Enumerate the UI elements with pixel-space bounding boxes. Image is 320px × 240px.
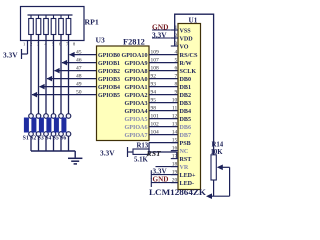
wire net 95 (U3 pin 95 to U1 pin 10) xyxy=(149,102,178,104)
svg-text:9: 9 xyxy=(175,89,178,95)
svg-text:S5: S5 xyxy=(53,136,59,142)
svg-text:107: 107 xyxy=(151,57,160,63)
wire net 107 (U3 pin 107 to U1 pin 5) xyxy=(149,62,178,64)
wire key column 2 (RP1 pin to switch S2) xyxy=(38,35,40,114)
wire switch common rail xyxy=(31,150,75,152)
wire 3.3V to R13 xyxy=(128,151,134,153)
svg-text:PSB: PSB xyxy=(180,141,191,147)
svg-text:13: 13 xyxy=(172,121,178,127)
svg-text:50: 50 xyxy=(76,89,82,95)
wire 3.3V to RP1 common xyxy=(22,41,28,55)
svg-text:R14: R14 xyxy=(212,141,224,148)
wire U1 pin 20 (LED-) to GND xyxy=(151,178,178,187)
svg-text:GPIOB5: GPIOB5 xyxy=(98,93,120,99)
svg-text:LCM12864ZK: LCM12864ZK xyxy=(149,188,207,197)
svg-text:GPIOB4: GPIOB4 xyxy=(98,85,120,91)
switch S1 (push button) xyxy=(24,114,33,151)
svg-text:GPIOA8: GPIOA8 xyxy=(125,69,148,75)
svg-text:VSS: VSS xyxy=(180,28,192,34)
svg-text:GPIOA7: GPIOA7 xyxy=(125,133,148,139)
wire U1 pin 1 (VSS) to GND label xyxy=(152,29,171,31)
svg-text:94: 94 xyxy=(151,89,157,95)
wire U1 pin 19 (LED+) to 3.3V xyxy=(151,170,178,179)
power port 3.3V (R13) xyxy=(100,147,128,157)
svg-text:5: 5 xyxy=(175,57,178,63)
svg-text:GPIOB1: GPIOB1 xyxy=(98,61,120,67)
wire U3 pin 47 to key column 4 with arrowhead xyxy=(54,68,96,74)
svg-text:VO: VO xyxy=(180,44,189,50)
svg-text:109: 109 xyxy=(151,49,160,55)
svg-text:GPIOA4: GPIOA4 xyxy=(125,109,148,115)
svg-text:GPIOB0: GPIOB0 xyxy=(98,53,120,59)
svg-text:DB3: DB3 xyxy=(180,101,192,107)
wire net 101 (U3 pin 101 to U1 pin 12) xyxy=(149,118,178,120)
svg-text:RST: RST xyxy=(180,157,192,163)
switch S4 (push button) xyxy=(47,114,56,151)
svg-text:F2812: F2812 xyxy=(123,38,145,47)
wire U3 pin 46 to key column 5 with arrowhead xyxy=(62,60,97,66)
U1 pin 1 lead xyxy=(171,29,178,31)
svg-text:VR: VR xyxy=(180,165,189,171)
wire U1 pin 3 (VO) to potentiometer R14 xyxy=(175,14,214,155)
svg-text:16: 16 xyxy=(172,145,178,151)
svg-text:RP1: RP1 xyxy=(85,18,99,27)
svg-text:GPIOA3: GPIOA3 xyxy=(125,101,148,107)
wire U3 pin 45 to key column 6 with arrowhead xyxy=(69,52,96,58)
svg-text:GPIOA0: GPIOA0 xyxy=(125,77,148,83)
wire net 93 (U3 pin 93 to U1 pin 8) xyxy=(149,86,178,88)
wire U3 pin 50 to key column 1 with arrowhead xyxy=(32,92,97,98)
svg-text:102: 102 xyxy=(151,121,160,127)
svg-text:3.3V: 3.3V xyxy=(152,30,167,39)
wire net 98 (U3 pin 98 to U1 pin 11) xyxy=(149,110,178,112)
U1 pin 20 lead xyxy=(171,182,178,184)
svg-text:GPIOB3: GPIOB3 xyxy=(98,77,120,83)
svg-text:GPIOA6: GPIOA6 xyxy=(125,125,148,131)
wire key column 1 (RP1 pin to switch S1) xyxy=(30,35,32,114)
U1 pin 17 lead xyxy=(171,158,178,160)
wire net 102 (U3 pin 102 to U1 pin 13) xyxy=(149,126,178,128)
svg-text:95: 95 xyxy=(151,97,157,103)
svg-text:DB2: DB2 xyxy=(180,93,192,99)
mcu U3 F2812 body xyxy=(97,46,150,141)
U1 pin 18 lead xyxy=(171,166,178,168)
RP1 pin numbers xyxy=(23,42,76,47)
svg-text:DB1: DB1 xyxy=(180,85,192,91)
svg-text:LED+: LED+ xyxy=(180,173,197,179)
wire right rail down xyxy=(229,167,231,196)
wire RST riser to U1 pin 17 xyxy=(176,152,178,159)
svg-text:DB4: DB4 xyxy=(180,109,192,115)
wire PSB branch xyxy=(148,143,150,152)
svg-text:12: 12 xyxy=(172,113,178,119)
svg-text:RS/CS: RS/CS xyxy=(180,53,199,59)
svg-text:VDD: VDD xyxy=(180,36,194,42)
wire U1 pin 18 (VR) xyxy=(156,166,179,168)
U1 pin 16 lead xyxy=(171,150,178,152)
svg-text:11: 11 xyxy=(172,105,178,111)
svg-text:48: 48 xyxy=(76,73,82,79)
svg-text:GPIOA9: GPIOA9 xyxy=(125,61,148,67)
wire wiper to right rail xyxy=(222,166,229,168)
svg-text:10: 10 xyxy=(172,97,178,103)
svg-text:LED-: LED- xyxy=(180,181,195,187)
wire net 108 (U3 pin 108 to U1 pin 6) xyxy=(149,70,178,72)
svg-text:NC: NC xyxy=(180,149,189,155)
switch S3 (push button) xyxy=(39,114,48,151)
svg-text:46: 46 xyxy=(76,57,82,63)
wire U1 pin 2 (VDD) to 3.3V label xyxy=(152,37,171,39)
svg-text:101: 101 xyxy=(151,113,160,119)
svg-text:DB0: DB0 xyxy=(180,77,192,83)
U1 pin 19 lead xyxy=(171,174,178,176)
switch S2 (push button) xyxy=(32,114,41,151)
svg-text:49: 49 xyxy=(76,81,82,87)
svg-text:DB6: DB6 xyxy=(180,125,192,131)
wire U1 pin 15 (PSB) xyxy=(149,142,178,144)
U1 pin 15 lead xyxy=(171,142,178,144)
wire net 104 (U3 pin 104 to U1 pin 14) xyxy=(149,134,178,136)
svg-text:8: 8 xyxy=(175,81,178,87)
resistor R13 xyxy=(133,149,149,154)
svg-text:DB7: DB7 xyxy=(180,133,192,139)
svg-text:92: 92 xyxy=(151,73,157,79)
wire net 92 (U3 pin 92 to U1 pin 7) xyxy=(149,78,178,80)
svg-text:45: 45 xyxy=(76,49,82,55)
wire R14 bottom lead xyxy=(213,180,215,196)
svg-text:S6: S6 xyxy=(60,136,66,142)
wire key column 3 (RP1 pin to switch S3) xyxy=(45,35,47,114)
svg-text:14: 14 xyxy=(172,129,178,135)
svg-text:GPIOA2: GPIOA2 xyxy=(125,93,148,99)
potentiometer R14 body xyxy=(211,155,216,180)
svg-text:U1: U1 xyxy=(189,16,198,24)
svg-text:1: 1 xyxy=(23,42,25,47)
resistor network RP1 xyxy=(21,7,85,41)
R14 wiper arrow xyxy=(217,165,223,171)
wire key column 6 (RP1 pin to switch S6) xyxy=(68,35,70,114)
svg-text:104: 104 xyxy=(151,129,160,135)
svg-text:47: 47 xyxy=(76,65,82,71)
svg-text:RST: RST xyxy=(146,149,163,158)
svg-text:SCLK: SCLK xyxy=(180,69,197,75)
svg-text:U3: U3 xyxy=(96,36,105,45)
svg-text:3.3V: 3.3V xyxy=(153,167,168,175)
svg-text:108: 108 xyxy=(151,65,160,71)
svg-text:S4: S4 xyxy=(45,136,51,142)
svg-text:S2: S2 xyxy=(30,136,36,142)
switch S5 (push button) xyxy=(54,114,63,151)
lcd module U1 body xyxy=(178,24,201,190)
ground xyxy=(68,151,82,164)
U1 pin 3 lead xyxy=(171,45,178,47)
svg-text:S3: S3 xyxy=(38,136,44,142)
svg-text:GPIOB2: GPIOB2 xyxy=(98,69,120,75)
switch S6 (push button) xyxy=(62,114,71,151)
U1 pin 2 lead xyxy=(171,37,178,39)
svg-text:98: 98 xyxy=(151,105,157,111)
svg-text:7: 7 xyxy=(175,73,178,79)
svg-text:4: 4 xyxy=(175,49,178,55)
svg-text:GPIOA10: GPIOA10 xyxy=(122,53,148,59)
svg-text:S1: S1 xyxy=(23,136,29,142)
svg-text:8: 8 xyxy=(73,42,76,47)
svg-text:GPIOA5: GPIOA5 xyxy=(125,117,148,123)
wire bottom with arrowhead xyxy=(206,193,230,199)
svg-text:GPIOA1: GPIOA1 xyxy=(125,85,148,91)
svg-text:3.3V: 3.3V xyxy=(100,148,115,157)
wire key column 4 (RP1 pin to switch S4) xyxy=(53,35,55,114)
wire U3 pin 49 to key column 2 with arrowhead xyxy=(39,84,96,90)
svg-text:R/W: R/W xyxy=(180,61,192,67)
svg-text:93: 93 xyxy=(151,81,157,87)
svg-text:3.3V: 3.3V xyxy=(3,50,18,59)
wire U3 pin 48 to key column 3 with arrowhead xyxy=(47,76,97,82)
svg-text:GND: GND xyxy=(153,176,169,184)
wire key column 5 (RP1 pin to switch S5) xyxy=(60,35,62,114)
wire R13 to RST net xyxy=(149,151,177,153)
power port 3.3V (left of RP1) xyxy=(3,49,22,59)
wire net 109 (U3 pin 109 to U1 pin 4) xyxy=(149,54,178,56)
svg-text:10K: 10K xyxy=(211,149,224,156)
svg-text:DB5: DB5 xyxy=(180,117,192,123)
wire net 94 (U3 pin 94 to U1 pin 9) xyxy=(149,94,178,96)
svg-text:6: 6 xyxy=(175,65,178,71)
